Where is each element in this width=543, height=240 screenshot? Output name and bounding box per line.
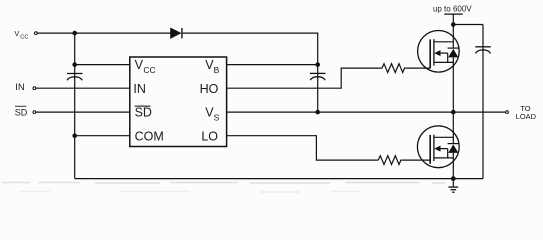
wire branch to VCC pin: [75, 64, 131, 66]
wire high-side source to VS node: [452, 57, 454, 112]
junction VCC rail dot: [72, 31, 77, 36]
junction VCC pin branch dot: [72, 62, 77, 67]
svg-text:B: B: [214, 65, 220, 75]
ground: [448, 179, 458, 193]
label pin IN: [133, 82, 146, 96]
wire resistor to high-side gate: [406, 67, 430, 69]
svg-text:S: S: [214, 113, 220, 123]
label VCC terminal: [14, 29, 28, 41]
svg-text:SD: SD: [15, 107, 28, 117]
svg-text:CC: CC: [143, 65, 155, 75]
svg-text:V: V: [14, 29, 19, 38]
node IN terminal: [33, 87, 36, 90]
wire VCC terminal to diode anode: [38, 32, 171, 34]
svg-text:V: V: [135, 58, 144, 72]
node TO LOAD terminal: [506, 111, 509, 114]
label IN terminal: [15, 82, 25, 93]
junction ground rail dot: [451, 176, 456, 181]
junction VS rail dot: [451, 110, 456, 115]
wire bottom ground rail: [75, 178, 483, 180]
transistor Q2 low-side MOSFET: [417, 126, 459, 168]
svg-text:CC: CC: [20, 35, 28, 41]
label pin HO: [200, 82, 219, 96]
wire 600V rail to capacitor corner: [453, 24, 483, 26]
capacitor (bootstrap): [310, 73, 326, 80]
transistor Q1 high-side MOSFET: [418, 31, 460, 73]
label pin LO: [201, 129, 218, 143]
wire SD terminal to SD pin: [36, 111, 130, 113]
wire VCC vertical rail down to bottom rail: [74, 33, 76, 179]
wire VS line to load: [227, 111, 506, 113]
wire right capacitor lead: [482, 25, 484, 179]
wire IN terminal to IN pin: [36, 87, 130, 89]
wire 600V rail stub: [444, 14, 462, 24]
wire HO pin to gate resistor: [227, 68, 382, 88]
resistor (low-side gate): [378, 156, 403, 165]
label pin SD: [135, 106, 152, 120]
svg-text:LOAD: LOAD: [516, 112, 537, 121]
label pin VB: [205, 58, 219, 75]
junction 600V rail dot: [451, 22, 456, 27]
scan artifact faint text remnants bottom: [2, 183, 445, 193]
svg-text:IN: IN: [15, 82, 25, 93]
wire COM pin to rail: [75, 135, 131, 137]
wire bootstrap cap lead VB to VS: [317, 65, 319, 113]
label pin VCC: [135, 58, 156, 75]
wire low-side drain: [452, 112, 454, 144]
svg-text:LO: LO: [201, 129, 218, 143]
capacitor (VCC decoupling): [67, 74, 83, 81]
node SD terminal: [33, 111, 36, 114]
label pin COM: [135, 129, 164, 143]
wire LO pin to gate resistor: [227, 136, 379, 160]
capacitor (bus): [475, 47, 491, 54]
label SD terminal: [15, 106, 28, 118]
svg-text:up to 600V: up to 600V: [433, 4, 472, 13]
wire low-side source to ground rail: [452, 153, 454, 179]
svg-text:COM: COM: [135, 129, 164, 143]
svg-text:HO: HO: [200, 82, 219, 96]
resistor (high-side gate): [382, 64, 406, 73]
label TO LOAD: [516, 104, 537, 121]
svg-text:SD: SD: [135, 106, 152, 120]
node VCC terminal: [35, 32, 38, 35]
op-amp U1 driver IC box: [130, 57, 227, 147]
svg-text:IN: IN: [133, 82, 146, 96]
diode (bootstrap): [171, 28, 182, 38]
junction VS bootstrap dot: [315, 110, 320, 115]
label up to 600V: [433, 4, 472, 13]
junction COM dot: [72, 133, 77, 138]
wire diode cathode to VB corner: [183, 33, 318, 65]
wire high-side drain: [452, 25, 454, 49]
wire resistor to low-side gate: [403, 159, 430, 161]
wire VB pin to bootstrap node: [227, 64, 318, 66]
junction VB bootstrap dot: [315, 62, 320, 67]
label pin VS: [205, 106, 219, 123]
